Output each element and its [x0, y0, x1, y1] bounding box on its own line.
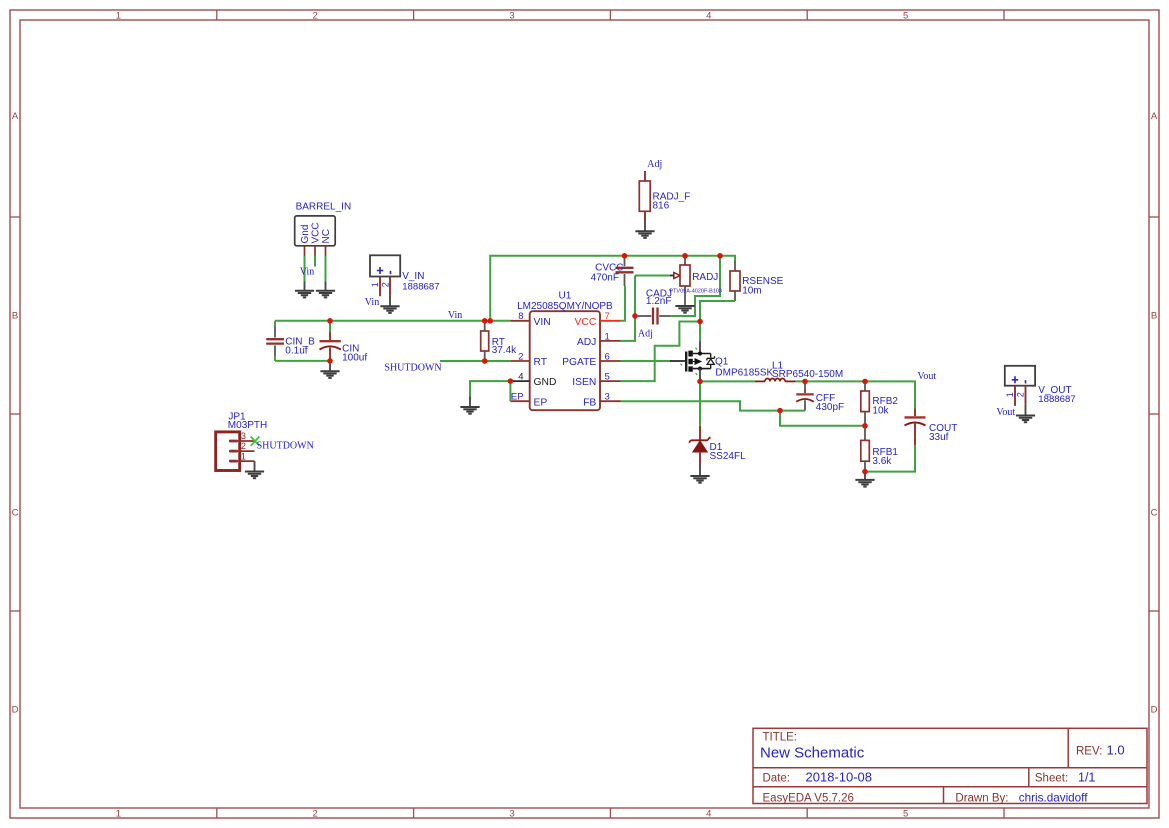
resistor RSENSE leads [734, 261, 736, 271]
JP1 pin 3 [229, 440, 255, 442]
resistor RFB2 leads [864, 381, 866, 391]
svg-text:FB: FB [583, 397, 596, 408]
svg-text:SRP6540-150M: SRP6540-150M [772, 369, 843, 380]
wire Vin loop up and across [490, 256, 735, 321]
svg-text:4: 4 [518, 372, 523, 383]
ground D1 [690, 476, 709, 483]
svg-text:4: 4 [706, 10, 711, 21]
svg-text:2: 2 [313, 10, 318, 21]
junction RFB mid [862, 423, 867, 428]
svg-text:BARREL_IN: BARREL_IN [296, 201, 352, 212]
junction RFB2 top [862, 379, 867, 384]
ground stem V_OUT [1025, 405, 1027, 415]
ground CIN [320, 371, 339, 378]
svg-text:6: 6 [605, 351, 610, 362]
U1 pin 2 RT stub [510, 360, 529, 362]
wire SHUTDOWN to RT pin [440, 360, 510, 362]
svg-text:RT: RT [534, 357, 548, 368]
svg-text:37.4k: 37.4k [492, 345, 517, 356]
svg-text:SHUTDOWN: SHUTDOWN [384, 362, 441, 373]
capacitor CIN_B [266, 327, 315, 357]
svg-text:PTV09A-4020F-B103: PTV09A-4020F-B103 [669, 289, 722, 295]
U1 pin 1 ADJ stub [600, 340, 621, 342]
svg-text:Vout: Vout [917, 371, 936, 382]
wire COUT bottom to RFB1 bottom [865, 445, 915, 472]
svg-text:1: 1 [241, 451, 246, 461]
frame ruler numbers top [116, 10, 908, 21]
ground RADJ_F [635, 231, 654, 238]
ground BARREL_IN pin1 [295, 291, 314, 298]
resistor RADJ_F [639, 181, 690, 211]
junction CVCC top [622, 253, 627, 258]
svg-text:A: A [12, 111, 19, 122]
transistor Q1 DMP6185SK [670, 342, 774, 380]
svg-text:Vin: Vin [365, 297, 379, 308]
svg-text:VCC: VCC [575, 317, 597, 328]
svg-text:V_IN: V_IN [402, 271, 424, 282]
wire BARREL_IN pin3 to ground [325, 256, 327, 282]
ground RFB1 [855, 480, 874, 487]
U1 pin EP stub [510, 400, 529, 402]
wire ISEN staircase to drain node [621, 322, 701, 382]
wire RADJ wiper with arrow [635, 275, 670, 277]
ground U1 [460, 407, 479, 414]
svg-text:8: 8 [518, 311, 523, 322]
V_OUT pin 2 lead [1025, 386, 1027, 405]
junction CADJ left [632, 313, 637, 318]
junction Vin loop branch [488, 318, 493, 323]
svg-text:M03PTH: M03PTH [228, 420, 267, 431]
resistor RFB1 leads [864, 426, 866, 441]
svg-text:Adj: Adj [638, 329, 653, 340]
JP1 pin 1 [229, 460, 255, 462]
svg-text:4: 4 [706, 809, 711, 820]
svg-text:2: 2 [313, 809, 318, 820]
connector BARREL_IN body [295, 201, 351, 245]
wire GND junction down to EP [509, 381, 511, 401]
frame ruler numbers bottom [116, 809, 908, 820]
svg-text:Vout: Vout [996, 407, 1015, 418]
V_IN pin 1 lead [379, 277, 381, 297]
svg-text:DMP6185SK: DMP6185SK [715, 367, 773, 378]
wire Vin bus horizontal [275, 320, 510, 322]
svg-text:VCC: VCC [311, 222, 322, 243]
wire CIN_B bottom drop [274, 356, 276, 361]
resistor RT leads [484, 321, 486, 331]
BARREL_IN pin 1 stub [304, 246, 306, 256]
svg-text:D: D [1151, 705, 1158, 716]
U1 pin 3 FB stub [600, 400, 621, 402]
svg-text:816: 816 [653, 200, 670, 211]
svg-text:PGATE: PGATE [562, 357, 596, 368]
svg-text:2018-10-08: 2018-10-08 [806, 769, 873, 784]
svg-text:GND: GND [534, 377, 557, 388]
wire PGATE to gate [621, 360, 671, 362]
svg-text:3: 3 [509, 10, 514, 21]
junction RT top [482, 318, 487, 323]
svg-text:SHUTDOWN: SHUTDOWN [257, 441, 314, 452]
svg-text:Q1: Q1 [715, 357, 729, 368]
junction RFB1 bottom [862, 469, 867, 474]
svg-text:RADJ: RADJ [692, 272, 718, 283]
svg-text:Adj: Adj [647, 159, 662, 170]
junction drain node [697, 319, 702, 324]
title block [753, 728, 1147, 803]
wire BARREL_IN pin1 to ground [304, 256, 306, 282]
U1 pin 8 VIN stub [510, 320, 529, 322]
wire source node down to D1 [699, 381, 701, 425]
U1 pin 7 VCC stub [600, 320, 621, 322]
resistor RT [481, 331, 517, 356]
wire FB to CFF bottom [621, 401, 806, 410]
svg-text:TITLE:: TITLE: [763, 731, 798, 743]
svg-text:0.1uf: 0.1uf [285, 346, 307, 357]
svg-text:REV:: REV: [1076, 745, 1102, 757]
ground stem JP1 pin1 [254, 461, 256, 471]
svg-text:1: 1 [116, 10, 121, 21]
potentiometer RADJ [669, 265, 722, 295]
svg-text:chris.davidoff: chris.davidoff [1019, 792, 1088, 805]
svg-text:C: C [1151, 508, 1158, 519]
junction Vin loop at x720 [717, 253, 722, 258]
junction FB branch [777, 408, 782, 413]
svg-text:2: 2 [380, 282, 390, 287]
battery V_OUT body [1005, 366, 1076, 405]
svg-text:2: 2 [241, 441, 246, 451]
BARREL_IN pin 2 stub [314, 246, 316, 256]
svg-text:VIN: VIN [534, 317, 551, 328]
junction GND pin [508, 378, 513, 383]
svg-text:NC: NC [321, 229, 332, 243]
svg-text:10m: 10m [742, 285, 761, 296]
junction dots overlay [327, 253, 867, 474]
diode D1 SS24FL [689, 426, 746, 466]
ground V_OUT [1016, 416, 1035, 423]
svg-text:A: A [1151, 111, 1158, 122]
ground stem BARREL_IN pin1 [304, 282, 306, 291]
svg-text:1.0: 1.0 [1107, 743, 1125, 758]
svg-text:5: 5 [903, 10, 908, 21]
wire ADJ pin to Adj vertical [621, 276, 636, 341]
svg-text:5: 5 [605, 372, 610, 383]
svg-text:EP: EP [511, 392, 524, 403]
svg-text:SS24FL: SS24FL [710, 451, 747, 462]
svg-text:470nF: 470nF [591, 272, 619, 283]
wire CIN top drop [329, 321, 331, 331]
ground JP1 pin1 [245, 472, 264, 479]
inductor L1 [755, 360, 843, 381]
svg-text:5: 5 [903, 809, 908, 820]
battery V_IN body [370, 255, 440, 292]
frame ruler letters left [12, 111, 19, 716]
svg-text:33uf: 33uf [929, 432, 949, 443]
wire GND pin to ground [470, 381, 510, 396]
potentiometer RADJ leads [684, 256, 686, 265]
svg-text:Vin: Vin [300, 267, 314, 278]
ground stem D1 [699, 466, 701, 476]
V_IN pin 2 lead [389, 277, 391, 296]
svg-text:3: 3 [509, 809, 514, 820]
svg-text:1: 1 [605, 331, 610, 342]
frame ruler letters right [1151, 111, 1158, 716]
svg-text:EP: EP [534, 397, 548, 408]
wire RSENSE bottom to drain node [700, 301, 735, 342]
svg-text:Drawn By:: Drawn By: [955, 793, 1008, 805]
ground V_IN [380, 306, 399, 313]
svg-text:7: 7 [605, 311, 610, 322]
svg-text:ISEN: ISEN [572, 377, 596, 388]
junction L1 right CFF top [802, 379, 807, 384]
BARREL_IN pin 3 stub [325, 246, 327, 256]
svg-text:EasyEDA V5.7.26: EasyEDA V5.7.26 [763, 793, 854, 805]
svg-text:10k: 10k [872, 406, 889, 417]
svg-text:430pF: 430pF [816, 402, 844, 413]
capacitor CADJ [638, 288, 672, 324]
resistor RFB2 [861, 391, 899, 417]
svg-text:1.2nF: 1.2nF [646, 296, 672, 307]
svg-text:LM25085QMY/NOPB: LM25085QMY/NOPB [517, 301, 613, 312]
U1 pin 6 PGATE stub [600, 360, 621, 362]
ground stem CIN [329, 361, 331, 371]
junction CIN top [327, 318, 332, 323]
wire VCC pin to CVCC bottom [621, 286, 626, 321]
svg-text:1: 1 [370, 282, 380, 287]
capacitor COUT polarized [905, 409, 958, 446]
wire CADJ right up to Vin loop [670, 256, 720, 316]
wire source node to L1 [700, 380, 755, 382]
svg-text:B: B [1151, 311, 1157, 322]
resistor RADJ_F leads [644, 171, 646, 181]
svg-text:2: 2 [1015, 392, 1025, 397]
no-connect X on JP1 pin 3 [251, 437, 260, 446]
resistor RFB1 [861, 440, 899, 467]
U1 pin 5 ISEN stub [600, 380, 621, 382]
junction CIN bottom [327, 358, 332, 363]
svg-text:New Schematic: New Schematic [760, 745, 865, 762]
wire FB branch to RFB mid [780, 411, 865, 426]
svg-text:1888687: 1888687 [1038, 394, 1075, 405]
svg-text:C: C [12, 508, 19, 519]
svg-text:1/1: 1/1 [1078, 770, 1095, 784]
ground stem V_IN [389, 296, 391, 306]
capacitor CFF polarized [796, 381, 844, 413]
junction RADJ top [682, 253, 687, 258]
U1 pin 4 GND stub [510, 380, 529, 382]
svg-text:ADJ: ADJ [577, 337, 596, 348]
wire CIN_B to CIN bottom [275, 360, 330, 362]
ground stem BARREL_IN pin3 [325, 282, 327, 291]
wire L1 to Vout corner [796, 381, 916, 408]
capacitor CVCC [591, 256, 634, 286]
svg-text:1: 1 [1005, 392, 1015, 397]
svg-text:D: D [12, 705, 19, 716]
svg-text:3: 3 [605, 392, 610, 403]
wire BARREL_IN pin2 Vin stub [314, 256, 316, 267]
svg-text:3.6k: 3.6k [872, 456, 892, 467]
op-amp U1 LM25085 body [517, 291, 613, 411]
svg-text:100uf: 100uf [342, 352, 367, 363]
ground stem RADJ_F [644, 221, 646, 232]
svg-text:1888687: 1888687 [402, 281, 439, 292]
svg-text:Sheet:: Sheet: [1035, 772, 1068, 784]
wire CIN_B left drop top [274, 321, 276, 327]
connector JP1 body [216, 412, 268, 471]
ground BARREL_IN pin3 [316, 291, 335, 298]
capacitor CIN polarized [320, 331, 368, 363]
ground RADJ [675, 306, 694, 313]
svg-text:Vin: Vin [448, 310, 462, 321]
svg-text:Date:: Date: [763, 772, 791, 784]
svg-text:1: 1 [116, 809, 121, 820]
svg-text:B: B [12, 311, 18, 322]
junction Q1 source node [697, 379, 702, 384]
resistor RSENSE [730, 271, 784, 296]
ground stem RFB1 [864, 472, 866, 480]
svg-text:3: 3 [241, 431, 246, 441]
JP1 pin 2 [229, 450, 255, 452]
ground stem U1 [469, 397, 471, 407]
junction RT bottom [482, 358, 487, 363]
V_OUT pin 1 lead [1014, 386, 1016, 406]
svg-text:Gnd: Gnd [300, 225, 311, 244]
svg-text:2: 2 [518, 351, 523, 362]
